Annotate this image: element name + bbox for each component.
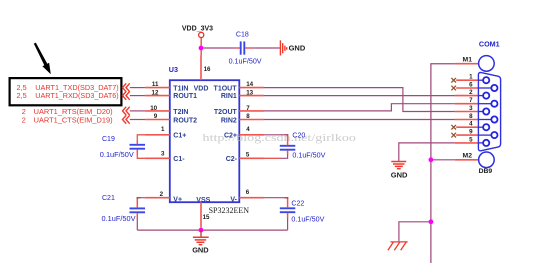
svg-text:V+: V+ xyxy=(173,196,182,203)
svg-text:4: 4 xyxy=(246,126,250,133)
DB9 pin 4 stub xyxy=(456,126,478,128)
svg-text:C18: C18 xyxy=(236,32,249,39)
junction rail/pin15 xyxy=(199,228,204,233)
wire pin15 to rail xyxy=(200,227,202,230)
U3 pin 3 xyxy=(145,157,170,159)
DB9 connector body xyxy=(478,73,500,151)
svg-text:2: 2 xyxy=(160,191,164,198)
wire M2 xyxy=(431,159,455,161)
svg-text:2: 2 xyxy=(22,116,26,125)
svg-text:UART1_RXD(SD3_DAT6): UART1_RXD(SD3_DAT6) xyxy=(35,91,118,100)
svg-text:9: 9 xyxy=(469,129,473,136)
U3 pin 10 xyxy=(145,110,170,112)
sheet entry chevron RXD xyxy=(123,91,130,99)
wire pin6 to C22 xyxy=(264,198,288,199)
U3 pin 8 xyxy=(239,119,264,121)
DB9 M1 stub xyxy=(455,63,479,65)
DB9 internal leads xyxy=(478,80,491,143)
svg-text:5: 5 xyxy=(469,136,473,143)
ground (sideways) at C18 xyxy=(280,40,286,55)
DB9 pin 9 stub xyxy=(456,134,478,136)
svg-text:C21: C21 xyxy=(102,195,115,202)
svg-text:RIN1: RIN1 xyxy=(221,93,237,100)
svg-text:13: 13 xyxy=(246,89,253,96)
svg-text:C2-: C2- xyxy=(226,156,238,163)
wire T1OUT row A with step xyxy=(264,88,455,112)
svg-text:0.1uF/50V: 0.1uF/50V xyxy=(229,58,262,65)
DB9 pin pads xyxy=(483,77,497,146)
svg-text:T1IN: T1IN xyxy=(173,85,188,92)
svg-text:COM1: COM1 xyxy=(479,39,500,48)
svg-text:14: 14 xyxy=(246,81,253,88)
svg-text:RIN2: RIN2 xyxy=(221,117,237,124)
svg-text:C2+: C2+ xyxy=(224,132,237,139)
svg-text:2,5: 2,5 xyxy=(17,91,27,100)
svg-text:0.1uF/50V: 0.1uF/50V xyxy=(102,216,136,223)
svg-text:ROUT1: ROUT1 xyxy=(173,93,197,100)
wire CTS to pin9 xyxy=(130,119,145,121)
wire C22 to gnd rail xyxy=(287,218,289,230)
sheet entry chevron CTS xyxy=(123,115,130,123)
DB9 M2 stub xyxy=(455,159,479,161)
DB9 pin 7 stub xyxy=(455,103,479,105)
svg-text:UART1_CTS(EIM_D19): UART1_CTS(EIM_D19) xyxy=(34,116,113,125)
wire TXD to pin11 xyxy=(130,87,145,89)
svg-text:GND: GND xyxy=(391,171,408,180)
svg-text:C1-: C1- xyxy=(173,156,185,163)
wire DB9 pin5 to ground xyxy=(399,143,455,161)
svg-text:9: 9 xyxy=(154,113,158,120)
power port VDD_3V3 xyxy=(182,25,213,55)
svg-text:M1: M1 xyxy=(463,56,473,63)
svg-text:V-: V- xyxy=(230,196,237,203)
svg-text:16: 16 xyxy=(204,66,211,73)
annotation box xyxy=(10,78,122,105)
junction VDD node xyxy=(199,46,204,51)
svg-text:12: 12 xyxy=(152,89,159,96)
svg-text:C19: C19 xyxy=(102,136,115,143)
wire RXD to pin12 xyxy=(130,95,145,97)
svg-text:8: 8 xyxy=(469,113,473,120)
svg-text:DB9: DB9 xyxy=(479,168,493,175)
wire pin1 to C19 xyxy=(137,135,145,141)
svg-text:GND: GND xyxy=(192,245,209,254)
junction chassis xyxy=(429,219,434,224)
U3 pin 12 xyxy=(145,95,170,97)
U3 pin 1 xyxy=(145,134,170,136)
DB9 shell circle M2 xyxy=(479,152,495,168)
net label UART1_TXD xyxy=(17,83,119,92)
svg-text:0.1uF/50V: 0.1uF/50V xyxy=(100,152,134,159)
U3 pin numbers xyxy=(150,66,253,221)
U3 pin 7 xyxy=(239,110,264,112)
svg-text:GND: GND xyxy=(289,44,306,53)
wire RIN1 row B xyxy=(264,95,455,97)
svg-text:6: 6 xyxy=(469,81,473,88)
svg-text:VDD_3V3: VDD_3V3 xyxy=(182,25,213,32)
wire C21 to gnd rail xyxy=(136,218,138,230)
svg-text:7: 7 xyxy=(469,97,473,104)
svg-text:U3: U3 xyxy=(169,65,178,74)
chassis ground xyxy=(388,242,408,250)
DB9 pin 6 stub xyxy=(456,87,478,89)
capacitor C21 xyxy=(102,195,146,223)
svg-text:ROUT2: ROUT2 xyxy=(173,118,197,125)
net label UART1_CTS xyxy=(22,116,113,125)
no-connect X pin1 xyxy=(451,78,456,83)
net label UART1_RXD xyxy=(17,91,119,100)
capacitor C19 xyxy=(100,136,145,159)
wire RIN2 row D xyxy=(264,119,455,121)
junction M2 xyxy=(429,157,434,162)
U3 pin 16 xyxy=(200,56,202,81)
no-connect X pin6 xyxy=(451,86,456,91)
svg-text:7: 7 xyxy=(246,105,250,112)
wire pin4 to C20 xyxy=(264,135,288,136)
svg-text:2: 2 xyxy=(469,89,473,96)
U3 pin 15 xyxy=(200,202,202,227)
capacitor C18 xyxy=(229,32,262,66)
ground GND under U3 xyxy=(193,230,209,245)
U3 pin 11 xyxy=(145,87,170,89)
wire pin2 to C21 xyxy=(137,198,145,199)
svg-text:1: 1 xyxy=(161,126,165,133)
svg-text:0.1uF/50V: 0.1uF/50V xyxy=(291,216,324,223)
U3 pin 13 xyxy=(239,95,264,97)
svg-text:VSS: VSS xyxy=(196,197,210,204)
DB9 pin 2 stub xyxy=(455,95,479,97)
IC U3 body xyxy=(170,80,240,202)
svg-text:5: 5 xyxy=(246,152,250,159)
wire C18 to GND xyxy=(252,47,279,49)
svg-text:1: 1 xyxy=(469,74,473,81)
capacitor C22 xyxy=(280,198,325,224)
no-connect X pin9 xyxy=(451,133,456,138)
svg-text:C20: C20 xyxy=(292,132,305,139)
sheet entry chevron RTS xyxy=(123,107,130,115)
annotation arrow xyxy=(34,43,51,75)
U3 pin 4 xyxy=(239,134,264,136)
DB9 pin 3 stub xyxy=(455,111,479,113)
DB9 pin 8 stub xyxy=(455,119,479,121)
U3 pin 14 xyxy=(239,87,264,89)
sheet entry chevron TXD xyxy=(123,83,130,91)
net label UART1_RTS xyxy=(22,107,113,116)
svg-text:SP3232EEN: SP3232EEN xyxy=(209,206,250,215)
capacitor C20 xyxy=(280,132,326,159)
svg-text:VDD: VDD xyxy=(194,85,209,92)
svg-text:0.1uF/50V: 0.1uF/50V xyxy=(292,153,325,160)
U3 pin 9 xyxy=(145,119,170,121)
svg-text:15: 15 xyxy=(203,214,210,221)
svg-text:8: 8 xyxy=(246,113,250,120)
svg-text:T2IN: T2IN xyxy=(173,109,188,116)
U3 pin names xyxy=(173,85,237,204)
wire RTS to pin10 xyxy=(130,110,145,112)
U3 pin 5 xyxy=(239,157,264,159)
svg-text:3: 3 xyxy=(469,105,473,112)
DB9 pin numbers xyxy=(469,74,473,144)
wire VDD node to C18 xyxy=(201,47,236,49)
svg-text:11: 11 xyxy=(152,81,159,88)
svg-text:4: 4 xyxy=(469,121,473,128)
wire T2OUT row C with step xyxy=(264,104,455,111)
U3 pin 6 xyxy=(239,197,264,199)
gnd rail wire xyxy=(137,229,287,231)
svg-text:6: 6 xyxy=(246,189,250,196)
DB9 pin 1 stub xyxy=(456,79,478,81)
wire C20 to pin5 xyxy=(281,155,288,159)
svg-text:10: 10 xyxy=(150,105,157,112)
svg-text:C1+: C1+ xyxy=(173,133,186,140)
ground at DB9 pin5 xyxy=(391,162,406,169)
svg-text:C22: C22 xyxy=(291,201,304,208)
svg-text:T1OUT: T1OUT xyxy=(214,85,238,92)
DB9 shell circle M1 xyxy=(479,56,495,72)
main vertical net wire xyxy=(431,64,455,263)
svg-text:M2: M2 xyxy=(463,153,473,160)
svg-text:3: 3 xyxy=(161,151,165,158)
wire C19 to pin3 xyxy=(137,154,145,158)
wire to chassis ground xyxy=(399,222,431,242)
svg-text:T2OUT: T2OUT xyxy=(214,109,238,116)
no-connect X pin4 xyxy=(451,125,456,130)
DB9 pin 5 stub xyxy=(455,142,479,144)
U3 pin 2 xyxy=(145,197,170,199)
